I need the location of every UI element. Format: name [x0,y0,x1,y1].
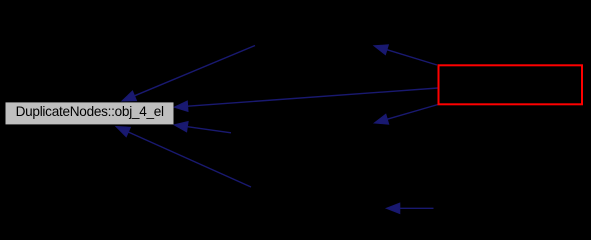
edge G (hidden node to hidden node (bottom right)) [386,203,433,213]
edge C (right caller to grey node) [174,122,231,133]
node truncated (red border) [439,65,583,104]
edge D (bottom caller to grey node) [116,127,251,188]
node DuplicateNodes::obj_4_el (grey filled) [6,102,174,124]
edge E (red node to top hidden node) [374,45,437,65]
edge A (top caller to grey node) [122,46,255,102]
svg-text:DuplicateNodes::obj_4_el: DuplicateNodes::obj_4_el [16,104,164,119]
edge B (red node to grey node) [174,88,438,111]
edge F (red node to bottom hidden node) [374,105,438,125]
